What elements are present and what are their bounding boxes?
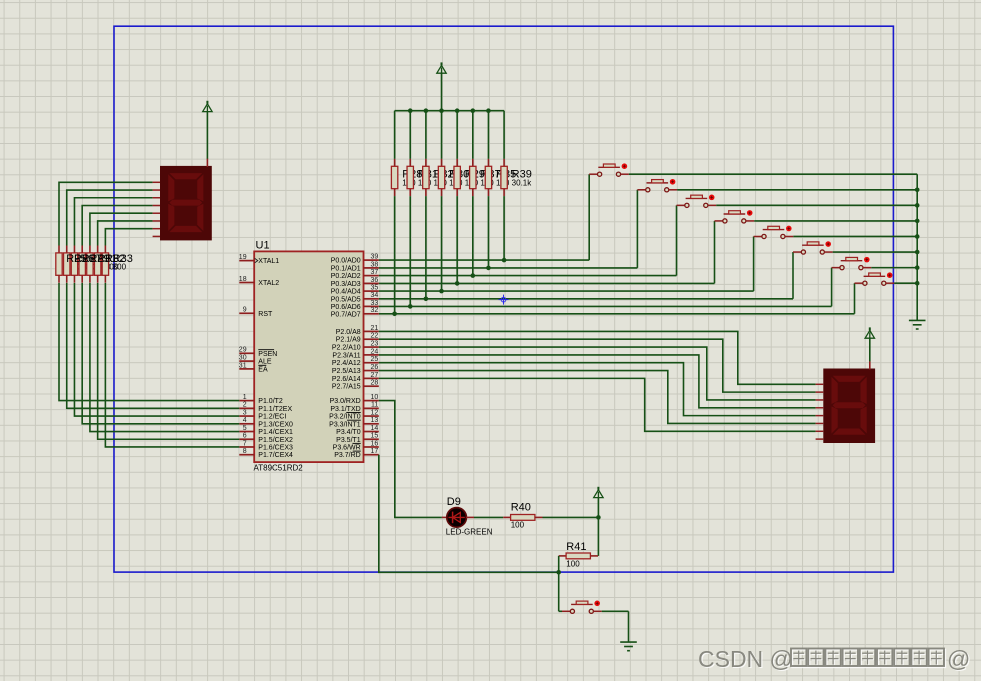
svg-text:P2.0/A8: P2.0/A8 (336, 329, 361, 336)
wire button3 to P0.2 (676, 205, 678, 275)
resistor R27 (71, 246, 77, 283)
resistor R37 (470, 159, 476, 196)
svg-text:23: 23 (371, 340, 379, 347)
wire button2 to ground bus (677, 189, 917, 191)
svg-text:EA: EA (258, 366, 268, 373)
wire button1 to ground bus (629, 173, 917, 175)
push button BUT1 (589, 163, 629, 176)
svg-text:28: 28 (371, 380, 379, 387)
pin 15 P3.5/T1 stub (364, 438, 379, 440)
svg-text:P3.2/INT0: P3.2/INT0 (329, 414, 361, 421)
7-segment display left 7SEG (160, 166, 212, 241)
svg-text:26: 26 (371, 364, 379, 371)
svg-text:P0.7/AD7: P0.7/AD7 (331, 311, 361, 318)
junction R32/P0.5 (424, 297, 429, 302)
svg-text:P0.6/AD6: P0.6/AD6 (331, 304, 361, 311)
wire button7 to P0.6 (831, 268, 833, 307)
svg-text:P0.4/AD4: P0.4/AD4 (331, 289, 361, 296)
svg-text:30.1k: 30.1k (512, 178, 533, 187)
push button BUT3 (677, 195, 717, 208)
wire power to bus (441, 73, 443, 111)
power VCC (top bus) (437, 62, 446, 73)
wire button4 to ground bus (754, 220, 917, 222)
resistor R28 (391, 159, 397, 196)
wire button8 to ground bus (894, 282, 917, 284)
push button BUT2 (637, 179, 677, 192)
svg-text:14: 14 (371, 425, 379, 432)
svg-text:100: 100 (511, 520, 525, 529)
pin 35 P0.4/AD4 stub (364, 290, 379, 292)
push button BUT8 (855, 272, 895, 285)
junction bus button6 (915, 250, 920, 255)
ground (bottom button) (620, 642, 637, 651)
junction R28/P0.7 (392, 312, 397, 317)
pin 25 P2.4/A12 stub (364, 362, 379, 364)
resistor R32 (423, 159, 429, 196)
junction R37/P0.2 (471, 273, 476, 278)
wire net P1.1 (67, 283, 240, 408)
junction R35/P0.1 (486, 266, 491, 271)
svg-text:10: 10 (371, 394, 379, 401)
wire to left display pin 6 (98, 221, 153, 246)
svg-text:30: 30 (239, 355, 247, 362)
junction bus col4 (439, 108, 444, 113)
pin 14 P3.4/T0 stub (364, 431, 379, 433)
pin 8 P1.7/CEX4 stub (239, 454, 254, 456)
wire R28 to P0.7 row (394, 196, 396, 314)
svg-text:P1.5/CEX2: P1.5/CEX2 (258, 437, 293, 444)
resistor R31 (87, 246, 93, 283)
svg-text:P2.7/A15: P2.7/A15 (332, 384, 361, 391)
junction bus button3 (915, 203, 920, 208)
push button BUT6 (793, 241, 833, 254)
junction R30/P0.4 (439, 289, 444, 294)
pin 17 P3.7/RD stub (364, 454, 379, 456)
svg-text:P2.1/A9: P2.1/A9 (336, 337, 361, 344)
svg-text:P0.1/AD1: P0.1/AD1 (331, 265, 361, 272)
pin 18 XTAL2 stub (239, 282, 254, 284)
7-segment display right 7SEG (823, 369, 875, 444)
svg-text:PSEN: PSEN (258, 351, 277, 358)
wire right ground bus (916, 174, 918, 320)
resistor R32 (94, 246, 100, 283)
svg-text:P2.6/A14: P2.6/A14 (332, 376, 361, 383)
left display pin stubs (153, 182, 160, 236)
svg-text:P1.6/CEX3: P1.6/CEX3 (258, 444, 293, 451)
svg-text:37: 37 (371, 269, 379, 276)
wire button5 to P0.4 (753, 236, 755, 291)
wire net P2.1 to display (379, 339, 816, 392)
svg-text:25: 25 (371, 356, 379, 363)
pin 2 P1.1/T2EX stub (239, 407, 254, 409)
wire net P2.3 to display (379, 355, 816, 408)
wire net P1.5 (98, 283, 240, 439)
pin 3 P1.2/ECI stub (239, 415, 254, 417)
sheet frame (114, 26, 893, 572)
svg-text:19: 19 (239, 254, 247, 261)
pin 9 RST stub (239, 312, 254, 314)
wire bus to R29 (456, 111, 458, 159)
pin 12 P3.2/INT0 stub (364, 415, 379, 417)
svg-text:XTAL2: XTAL2 (258, 280, 279, 287)
svg-text:U1: U1 (256, 240, 270, 252)
svg-text:RST: RST (258, 311, 273, 318)
resistor R41 (559, 553, 598, 559)
svg-text:6: 6 (243, 433, 247, 440)
svg-text:17: 17 (371, 448, 379, 455)
svg-text:P2.5/A13: P2.5/A13 (332, 368, 361, 375)
wire R37 to P0.2 row (472, 196, 474, 276)
resistor R25 (56, 246, 62, 283)
wire button6 to P0.5 (792, 252, 794, 299)
svg-text:18: 18 (239, 276, 247, 283)
wire button3 to ground bus (716, 204, 917, 206)
svg-text:39: 39 (371, 254, 379, 261)
svg-text:P3.0/RXD: P3.0/RXD (330, 398, 361, 405)
pin 5 P1.4/CEX1 stub (239, 431, 254, 433)
wire bus to R39 (503, 111, 505, 159)
overline P3.3/INT1 (347, 419, 361, 421)
wire to left display pin 5 (90, 213, 153, 245)
svg-text:P3.4/T0: P3.4/T0 (336, 429, 361, 436)
svg-text:@: @ (947, 646, 970, 672)
origin marker node (499, 295, 509, 305)
junction R31/P0.6 (408, 304, 413, 309)
svg-text:P0.2/AD2: P0.2/AD2 (331, 273, 361, 280)
wire button4 to P0.3 (714, 221, 716, 283)
wire bus to R30 (441, 111, 443, 159)
wire net P0.7 (379, 313, 855, 315)
svg-text:13: 13 (371, 417, 379, 424)
wire button1 to P0.0 (588, 174, 590, 260)
svg-text:R41: R41 (566, 541, 586, 553)
overline P3.2/INT0 (346, 411, 360, 413)
wire R41 to bottom rail (558, 556, 560, 572)
svg-text:P0.0/AD0: P0.0/AD0 (331, 258, 361, 265)
pin 28 P2.7/A15 stub (364, 385, 379, 387)
wire net P0.0 (379, 259, 589, 261)
pin 38 P0.1/AD1 stub (364, 267, 379, 269)
wire net P2.6 to display (379, 378, 816, 431)
svg-text:15: 15 (371, 433, 379, 440)
pin 29 PSEN stub (239, 352, 254, 354)
right display common stub (869, 361, 871, 369)
pin 10 P3.0/RXD stub (364, 400, 379, 402)
wire bus to R37 (472, 111, 474, 159)
svg-text:AT89C51RD2: AT89C51RD2 (254, 464, 304, 473)
svg-text:P2.2/A10: P2.2/A10 (332, 345, 361, 352)
svg-text:P1.3/CEX0: P1.3/CEX0 (258, 421, 293, 428)
wire down to ground (628, 611, 630, 642)
overline PSEN (258, 349, 274, 351)
wire power to node (597, 498, 599, 518)
svg-text:2: 2 (243, 402, 247, 409)
resistor R31 (407, 159, 413, 196)
svg-text:P3.5/T1: P3.5/T1 (336, 437, 361, 444)
svg-text:P3.6/WR: P3.6/WR (333, 444, 361, 451)
svg-text:9: 9 (243, 307, 247, 314)
svg-text:29: 29 (239, 347, 247, 354)
MCU U1 (254, 251, 363, 462)
svg-text:11: 11 (371, 402, 378, 409)
wire button7 to ground bus (871, 267, 917, 269)
wire bus to R32 (425, 111, 427, 159)
junction R39/P0.0 (502, 258, 507, 263)
wire to left display pin 4 (82, 205, 152, 245)
wire button9 to ground drop (602, 610, 629, 612)
pin 31 EA stub (239, 368, 254, 370)
wire to button lead (559, 610, 562, 612)
wire bus to R31 (409, 111, 411, 159)
svg-text:36: 36 (371, 277, 379, 284)
wire R39 to P0.0 row (503, 196, 505, 260)
svg-text:R40: R40 (511, 501, 531, 513)
wire net P1.2 (74, 283, 239, 416)
svg-text:P1.2/ECI: P1.2/ECI (258, 414, 286, 421)
pin 21 P2.0/A8 stub (364, 330, 379, 332)
wire net P2.0 to display (379, 331, 816, 384)
resistor R33 (102, 246, 108, 283)
svg-text:8: 8 (243, 448, 247, 455)
wire R29 to P0.3 row (456, 196, 458, 283)
pin 24 P2.3/A11 stub (364, 354, 379, 356)
wire button6 to ground bus (833, 251, 918, 253)
junction bus button7 (915, 265, 920, 270)
resistor R26 (64, 246, 70, 283)
wire bus to R28 (394, 111, 396, 159)
resistor R29 (79, 246, 85, 283)
pin 6 P1.5/CEX2 stub (239, 438, 254, 440)
pin 37 P0.2/AD2 stub (364, 275, 379, 277)
svg-text:35: 35 (371, 285, 379, 292)
pin 30 ALE stub (239, 360, 254, 362)
ground (right bus) (909, 320, 926, 329)
svg-text:31: 31 (239, 362, 247, 369)
wire button5 to ground bus (793, 235, 917, 237)
svg-text:P1.0/T2: P1.0/T2 (258, 398, 283, 405)
wire top supply bus (395, 110, 504, 112)
resistor R40 (503, 515, 542, 521)
wire net P1.0 (59, 283, 239, 401)
wire net P3.7 rail (379, 455, 559, 573)
pin 11 P3.1/TXD stub (364, 407, 379, 409)
wire net P0.1 (379, 267, 638, 269)
svg-text:P3.1/TXD: P3.1/TXD (330, 406, 360, 413)
svg-text:P2.4/A12: P2.4/A12 (332, 360, 361, 367)
junction bus col5 (455, 108, 460, 113)
svg-text:P2.3/A11: P2.3/A11 (332, 352, 360, 359)
wire net P2.4 to display (379, 363, 816, 416)
push button BUT9 (562, 601, 602, 614)
wire net P2.5 to display (379, 371, 816, 424)
svg-text:P1.7/CEX4: P1.7/CEX4 (258, 452, 293, 459)
wire to left display pin 3 (74, 198, 152, 246)
push button BUT5 (754, 226, 794, 239)
clock mark XTAL1 (255, 258, 258, 263)
overline P3.7/RD (353, 450, 361, 452)
svg-text:D9: D9 (447, 496, 461, 508)
junction bus button4 (915, 219, 920, 224)
wire R31 to P0.6 row (409, 196, 411, 306)
svg-text:P0.5/AD5: P0.5/AD5 (331, 296, 361, 303)
pin 23 P2.2/A10 stub (364, 346, 379, 348)
pin 33 P0.6/AD6 stub (364, 305, 379, 307)
svg-text:22: 22 (371, 333, 379, 340)
svg-text:ALE: ALE (258, 359, 272, 366)
wire to left display pin 2 (67, 190, 153, 245)
power VCC (LED) (594, 487, 603, 498)
wire R32 to P0.5 row (425, 196, 427, 299)
pin 16 P3.6/WR stub (364, 446, 379, 448)
svg-text:100: 100 (566, 559, 580, 568)
wire net P0.5 (379, 298, 793, 300)
wire net P1.4 (90, 283, 239, 432)
wire to left display pin 1 (59, 182, 153, 245)
svg-text:4: 4 (243, 417, 247, 424)
svg-text:1: 1 (243, 394, 247, 401)
wire rail down to button (558, 572, 560, 611)
pin 39 P0.0/AD0 stub (364, 259, 379, 261)
power VCC (right display) (865, 327, 874, 338)
svg-text:33: 33 (371, 300, 379, 307)
wire net P1.3 (82, 283, 239, 424)
svg-text:P1.1/T2EX: P1.1/T2EX (258, 406, 292, 413)
wire net P0.6 (379, 305, 832, 307)
svg-text:12: 12 (371, 409, 379, 416)
junction bus button2 (915, 187, 920, 192)
svg-text:34: 34 (371, 292, 379, 299)
wire power to right display (869, 338, 871, 361)
junction bus col6 (471, 108, 476, 113)
wire power to left display (206, 112, 208, 159)
svg-text:R33: R33 (113, 253, 133, 265)
watermark CSDN (699, 647, 971, 673)
pin 7 P1.6/CEX3 stub (239, 446, 254, 448)
svg-text:CSDN @: CSDN @ (698, 646, 793, 672)
svg-text:XTAL1: XTAL1 (258, 258, 279, 265)
wire R40 to node (543, 516, 599, 518)
junction bus col2 (408, 108, 413, 113)
LED D9 (442, 508, 474, 528)
pin 32 P0.7/AD7 stub (364, 313, 379, 315)
wire net P3.0 to D9 (379, 401, 442, 518)
svg-text:P0.3/AD3: P0.3/AD3 (331, 281, 361, 288)
svg-text:3: 3 (243, 409, 247, 416)
wire net P2.2 to display (379, 347, 816, 400)
junction bus col7 (486, 108, 491, 113)
wire net P0.2 (379, 275, 677, 277)
resistor R30 (438, 159, 444, 196)
pin 1 P1.0/T2 stub (239, 400, 254, 402)
overline P3.6/WR (353, 442, 361, 444)
svg-text:P3.7/RD: P3.7/RD (334, 452, 360, 459)
svg-text:24: 24 (371, 348, 379, 355)
pin 26 P2.5/A13 stub (364, 370, 379, 372)
wire node down to R41 (597, 517, 599, 556)
resistor R35 (485, 159, 491, 196)
wire bus to R35 (487, 111, 489, 159)
overline EA (258, 364, 266, 366)
power VCC (left display) (203, 101, 212, 112)
wire R30 to P0.4 row (441, 196, 443, 291)
wire button8 to P0.7 (854, 283, 856, 314)
svg-text:LED-GREEN: LED-GREEN (446, 528, 493, 537)
pin 19 XTAL1 stub (239, 260, 254, 262)
svg-text:5: 5 (243, 425, 247, 432)
svg-text:38: 38 (371, 261, 379, 268)
junction rail/R41/button (556, 570, 561, 575)
push button BUT4 (715, 210, 755, 223)
wire button2 to P0.1 (636, 190, 638, 268)
pin 36 P0.3/AD3 stub (364, 282, 379, 284)
wire net P0.3 (379, 282, 715, 284)
svg-text:P3.3/INT1: P3.3/INT1 (329, 421, 361, 428)
right display pin stubs (816, 384, 824, 439)
wire R35 to P0.1 row (487, 196, 489, 268)
pin 4 P1.3/CEX0 stub (239, 423, 254, 425)
svg-text:P1.4/CEX1: P1.4/CEX1 (258, 429, 293, 436)
resistor R39 (501, 159, 507, 196)
svg-text:27: 27 (371, 372, 379, 379)
wire net P0.4 (379, 290, 754, 292)
pin 34 P0.5/AD5 stub (364, 298, 379, 300)
wire D9 to R40 (474, 516, 503, 518)
pin 22 P2.1/A9 stub (364, 338, 379, 340)
push button BUT7 (832, 257, 872, 270)
junction bus col3 (424, 108, 429, 113)
pin 27 P2.6/A14 stub (364, 377, 379, 379)
junction R40/R41/VCC (596, 515, 601, 520)
junction bus button8 (915, 281, 920, 286)
svg-text:21: 21 (371, 325, 379, 332)
svg-text:7: 7 (243, 440, 247, 447)
pin 13 P3.3/INT1 stub (364, 423, 379, 425)
wire net P1.6 (105, 283, 239, 447)
left display common stub (206, 159, 208, 167)
wire to left display pin 7 (105, 229, 152, 246)
resistor R29 (454, 159, 460, 196)
svg-text:16: 16 (371, 440, 379, 447)
svg-text:32: 32 (371, 307, 379, 314)
junction R29/P0.3 (455, 281, 460, 286)
junction bus button5 (915, 234, 920, 239)
